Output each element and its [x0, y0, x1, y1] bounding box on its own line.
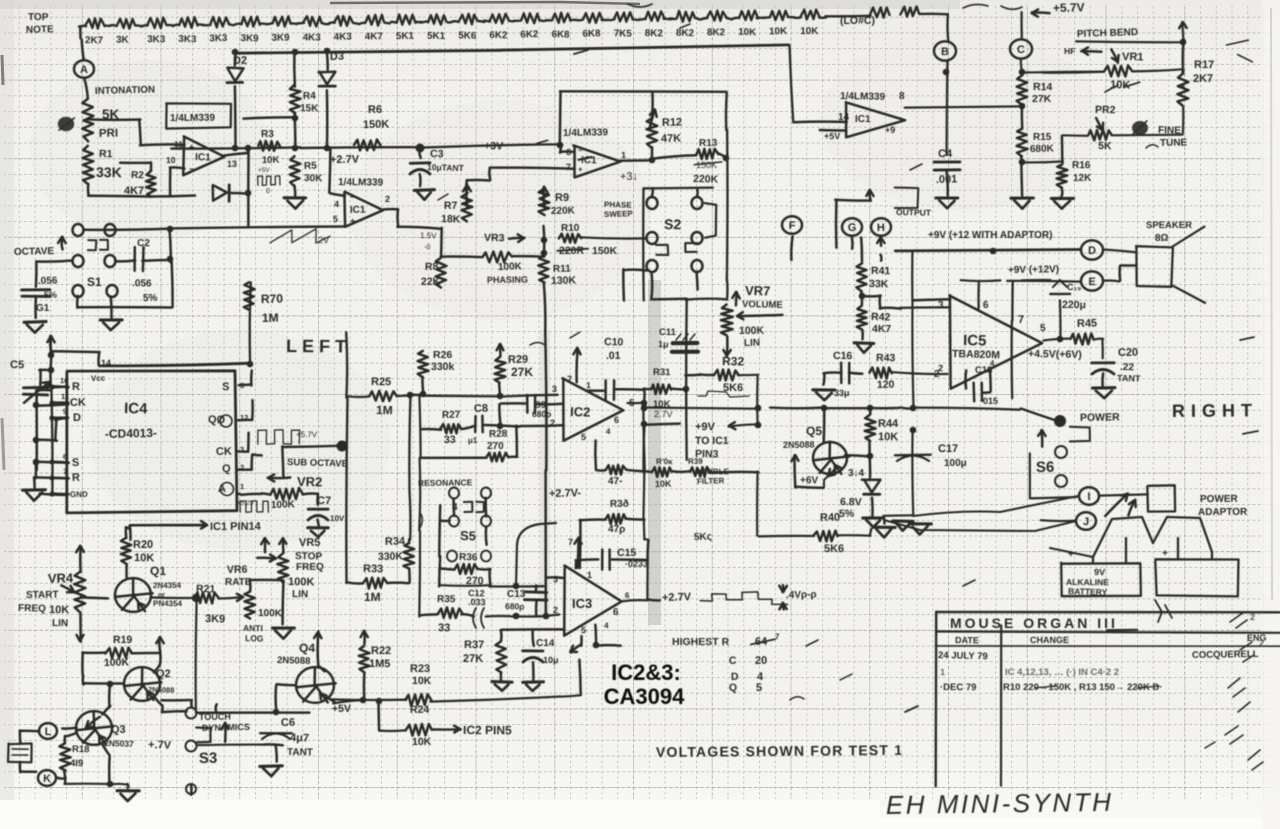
wire R11 bottom to S2 — [544, 283, 546, 331]
svg-text:+2.7V: +2.7V — [662, 591, 692, 604]
wire D to speaker — [1105, 250, 1137, 253]
wire x644 to C15 column — [643, 519, 646, 540]
svg-text:2N5088: 2N5088 — [783, 440, 815, 450]
svg-text:C20: C20 — [1118, 347, 1138, 359]
IC4 pin12 stub — [238, 419, 252, 422]
wire IC1a output — [224, 153, 248, 156]
wire bus_top y52 — [235, 50, 501, 53]
sawtooth sketch — [270, 229, 330, 243]
ground right of zener — [893, 519, 913, 523]
wire IC3 pin3 input — [546, 576, 565, 579]
svg-text:.4Vρ-ρ: .4Vρ-ρ — [786, 589, 817, 601]
resistor R14 27K — [1017, 75, 1028, 105]
svg-text:EH MINI-SYNTH: EH MINI-SYNTH — [886, 787, 1114, 820]
resistor chain R (value 6K8) — [583, 13, 602, 23]
svg-text:220μ: 220μ — [1062, 299, 1086, 311]
wire VR7 bottom arrow — [726, 337, 729, 357]
svg-text:R45: R45 — [1077, 317, 1098, 330]
paper blemishes — [648, 280, 661, 625]
svg-text:R31: R31 — [653, 367, 671, 378]
svg-text:K: K — [43, 773, 51, 785]
svg-text:R23: R23 — [410, 663, 430, 675]
ground C17 area — [873, 526, 895, 529]
wire top-left chain lead — [79, 27, 82, 38]
svg-text:10: 10 — [166, 155, 176, 165]
resistor R5 30K — [290, 156, 301, 186]
wire R14 to R15 — [1021, 104, 1024, 128]
svg-text:.056: .056 — [132, 278, 152, 290]
svg-text:R27: R27 — [442, 410, 461, 421]
svg-text:TANT: TANT — [1117, 373, 1141, 384]
wire IC1b output — [384, 208, 398, 211]
label +6V arrow — [793, 455, 796, 487]
svg-text:-CD4013-: -CD4013- — [105, 426, 157, 441]
svg-text:30K: 30K — [304, 173, 323, 184]
svg-text:3K9: 3K9 — [272, 33, 291, 44]
svg-text:13: 13 — [227, 159, 237, 169]
resistor R70 1M — [250, 282, 251, 364]
wire R13 to main vertical — [718, 153, 726, 157]
wire bottom ground rail — [64, 783, 110, 786]
IC4 pin1 wire to VR2 — [238, 493, 241, 496]
resistor chain R (value 5K1) — [397, 15, 416, 25]
svg-text:FINE: FINE — [1158, 125, 1181, 137]
wire plate bottom — [19, 762, 22, 772]
svg-text:10K: 10K — [878, 431, 898, 443]
svg-text:LIN: LIN — [52, 618, 68, 629]
wire S1 box — [84, 229, 171, 230]
stray marks upper middle — [574, 50, 588, 54]
wire Q1 emitter row y598 — [150, 596, 195, 599]
vertical bus x644 — [643, 404, 644, 470]
wire bus1 y148 — [171, 147, 300, 148]
node K terminal — [38, 770, 56, 786]
wire F down — [791, 237, 792, 260]
wire bus1 to IC1c — [418, 144, 560, 147]
svg-text:0: 0 — [266, 188, 270, 195]
IC4 left pin stub wires — [52, 386, 68, 387]
switch S5 terminals — [449, 488, 459, 499]
svg-text:IC2&3:: IC2&3: — [611, 660, 681, 685]
wire H down to R41 — [880, 255, 881, 261]
svg-text:Vcc: Vcc — [91, 374, 106, 383]
svg-text:7: 7 — [566, 162, 571, 172]
svg-text:6: 6 — [63, 452, 67, 461]
svg-text:R11: R11 — [553, 264, 572, 275]
wire Q4 collector arrow — [318, 666, 324, 672]
svg-text:H: H — [877, 222, 885, 234]
svg-text:G: G — [848, 222, 857, 234]
wire IC5 pin7 feed vertical — [1011, 283, 1014, 321]
svg-text:A: A — [80, 64, 88, 76]
wire Q2 collector — [154, 665, 160, 672]
svg-text:R40: R40 — [820, 512, 840, 524]
svg-text:1: 1 — [940, 667, 945, 677]
ground below VR5 — [273, 627, 295, 630]
wire R36 loop — [439, 568, 454, 569]
wire IC5 pin6 feed vertical — [977, 282, 980, 309]
resistor chain R (value 4K7) — [366, 15, 384, 26]
wire B vertical — [946, 14, 949, 41]
svg-text:VR2: VR2 — [297, 474, 322, 489]
resistor R3 10K — [258, 141, 280, 151]
svg-text:B: B — [941, 46, 949, 58]
wire +9V bus to D — [895, 250, 1079, 251]
junction D1 node — [245, 190, 252, 197]
svg-text:S3: S3 — [199, 750, 218, 767]
svg-text:100K: 100K — [498, 261, 523, 273]
svg-text:R42: R42 — [871, 311, 891, 324]
svg-text:VOLTAGES SHOWN FOR TEST 1: VOLTAGES SHOWN FOR TEST 1 — [656, 742, 903, 760]
wire R22 bottom — [363, 673, 366, 700]
svg-text:1.5V: 1.5V — [420, 231, 437, 240]
svg-text:R22: R22 — [371, 645, 391, 657]
svg-text:R13: R13 — [699, 138, 718, 149]
svg-text:+: + — [578, 165, 583, 174]
svg-text:R5: R5 — [304, 161, 318, 172]
wire R24 branch — [377, 701, 380, 730]
svg-text:R32: R32 — [722, 354, 745, 369]
svg-text:5: 5 — [1040, 323, 1046, 334]
box around IC1c R12 top line — [560, 90, 727, 93]
svg-text:IC5: IC5 — [963, 332, 987, 350]
wire IC1b out to R7/R8 column — [397, 227, 440, 229]
svg-text:+5.2V: +5.2V — [237, 500, 255, 507]
node G terminal — [842, 218, 862, 236]
svg-text:(LO#C): (LO#C) — [840, 15, 875, 27]
svg-text:+: + — [350, 216, 355, 226]
svg-text:4K7: 4K7 — [365, 31, 384, 42]
svg-text:R3ð: R3ð — [610, 498, 629, 510]
svg-text:100K: 100K — [288, 576, 315, 588]
wire R21 to VR6 — [218, 597, 242, 599]
svg-text:R35: R35 — [437, 594, 456, 605]
vertical bus x686 — [685, 299, 688, 460]
wire G H to +9 bus — [835, 200, 838, 248]
title block frame — [936, 611, 1279, 614]
IC4 pin14 top wire — [51, 350, 100, 353]
node C terminal — [1010, 39, 1032, 58]
screw adjust PR2 — [1132, 121, 1148, 135]
resistor chain R (value 3K3) — [147, 18, 166, 29]
wire jack arrows — [1105, 493, 1128, 516]
svg-text:C17: C17 — [938, 443, 958, 455]
resistor R1 33K — [83, 146, 94, 184]
wire R18 ends — [63, 736, 66, 742]
svg-text:9V: 9V — [1094, 567, 1105, 577]
wire Q4 emitter — [327, 697, 335, 702]
svg-text:C4: C4 — [938, 148, 953, 160]
wire R32 left — [700, 373, 714, 376]
svg-text:2N5088: 2N5088 — [148, 685, 174, 695]
svg-text:20: 20 — [755, 655, 767, 667]
svg-text:R26: R26 — [433, 349, 452, 361]
svg-text:+5.7V: +5.7V — [296, 430, 318, 439]
ground below R42 — [861, 330, 864, 339]
resistor R9 220K — [544, 187, 545, 209]
svg-text:10K: 10K — [262, 155, 280, 166]
svg-text:Q2: Q2 — [156, 668, 171, 680]
svg-text:1/4LM339: 1/4LM339 — [338, 177, 384, 189]
wire IC1c output to R12/R13 — [619, 159, 652, 162]
svg-text:5K1: 5K1 — [396, 31, 415, 42]
wire +9 bus down right side — [911, 251, 913, 301]
tick right edge — [1243, 431, 1258, 434]
svg-text:10K: 10K — [412, 675, 432, 687]
wire R15 bottom — [1020, 156, 1023, 195]
svg-text:-0: -0 — [424, 244, 431, 251]
vertical bus x347 — [345, 332, 348, 397]
node J terminal — [1076, 512, 1096, 530]
ground left of C16 row — [824, 371, 842, 374]
wire R17 bottom to PR2 row — [1182, 107, 1185, 133]
svg-text:C₁₉: C₁₉ — [1067, 282, 1081, 292]
svg-text:IC2: IC2 — [570, 404, 591, 420]
resistor R16 12K — [1061, 161, 1064, 165]
wire R33 row — [348, 582, 363, 583]
svg-text:3K: 3K — [116, 35, 129, 46]
svg-text:18K: 18K — [441, 213, 461, 226]
svg-text:680ρ: 680ρ — [505, 601, 525, 611]
svg-text:+5V: +5V — [332, 703, 351, 715]
resistor R4 15K — [293, 52, 296, 87]
wire C19 up to E — [1058, 279, 1061, 282]
wire R31 row — [644, 387, 650, 390]
transistor Q2 2N5088 — [124, 667, 160, 701]
wire power node — [901, 408, 913, 409]
svg-text:2: 2 — [1250, 612, 1255, 622]
svg-text:Q5: Q5 — [806, 424, 822, 438]
svg-text:12K: 12K — [1073, 173, 1092, 184]
svg-text:5K1: 5K1 — [427, 31, 446, 42]
svg-text:R4: R4 — [303, 91, 317, 102]
svg-text:R41: R41 — [871, 265, 891, 277]
node L terminal — [39, 723, 57, 739]
svg-text:3: 3 — [553, 574, 558, 584]
battery second box — [1155, 559, 1238, 596]
wire S2 bottom drops — [650, 272, 653, 299]
wire R44 — [868, 409, 871, 414]
svg-text:G1: G1 — [36, 303, 50, 314]
svg-text:3K9: 3K9 — [240, 33, 259, 44]
wire output up to C19 — [1059, 300, 1062, 339]
svg-text:F: F — [789, 220, 796, 232]
junction +5V node — [360, 697, 367, 704]
resistor R20 10K — [121, 538, 131, 564]
svg-text:.22: .22 — [1120, 362, 1135, 373]
wire Q4 base — [277, 684, 296, 685]
svg-text:R14: R14 — [1033, 81, 1053, 93]
label S3 bottom circle wire — [190, 784, 193, 794]
svg-text:L: L — [45, 726, 52, 738]
svg-text:R20: R20 — [133, 539, 153, 551]
resistor R17 body — [1178, 74, 1189, 106]
arrow IC2 PIN5 — [432, 728, 461, 730]
svg-text:5%: 5% — [44, 290, 57, 300]
svg-text:R6: R6 — [368, 104, 382, 116]
wire x420 vertical left — [419, 396, 420, 458]
stray mark left of title block — [905, 706, 918, 712]
svg-text:TUNE: TUNE — [1160, 137, 1188, 149]
wire y616 to IC3 — [516, 615, 546, 618]
wire Q1 base-collector vertical — [196, 598, 197, 712]
resistor chain R (value 10K) — [739, 11, 758, 21]
node D terminal — [1081, 240, 1103, 259]
wire Q3 collector to Q2 base node — [102, 706, 110, 714]
vertical bus x410 down — [409, 395, 410, 492]
svg-text:R2: R2 — [131, 170, 144, 181]
svg-text:C8: C8 — [474, 403, 488, 415]
svg-text:10K: 10K — [655, 479, 672, 489]
svg-text:7: 7 — [63, 467, 67, 476]
resistor chain R (value 3K) — [117, 19, 135, 29]
svg-text:220K: 220K — [551, 205, 576, 217]
svg-text:E: E — [1088, 276, 1096, 288]
svg-text:100K: 100K — [258, 608, 283, 619]
wire Q1 column down — [195, 596, 198, 599]
svg-text:R3: R3 — [261, 129, 274, 140]
svg-text:R16: R16 — [1072, 160, 1091, 171]
svg-text:4: 4 — [334, 199, 339, 209]
wire IC4 left bus vertical — [51, 388, 52, 494]
wire bus y396 to IC2 — [421, 395, 501, 398]
resistor chain R (value 3K3) — [179, 17, 197, 28]
wire C5 to IC4 pins — [35, 395, 38, 470]
node H terminal — [871, 218, 891, 236]
svg-text:33μ: 33μ — [834, 388, 850, 398]
resistor chain R (value 6K8) — [552, 13, 570, 23]
svg-text:10: 10 — [60, 376, 69, 385]
svg-text:C6: C6 — [281, 717, 295, 729]
junction R14 top — [1019, 69, 1026, 76]
svg-text:+9V (+12 WITH ADAPTOR): +9V (+12 WITH ADAPTOR) — [928, 230, 1052, 241]
svg-text:330K: 330K — [378, 550, 404, 563]
svg-text:4K3: 4K3 — [334, 32, 353, 43]
junction bus1 x248 — [245, 145, 252, 152]
svg-text:27K: 27K — [463, 653, 483, 665]
wire VR1 ends — [1043, 71, 1104, 74]
wire R32 right corner down — [738, 374, 758, 377]
svg-text:5: 5 — [333, 214, 338, 224]
resistor R17 2K7 — [1181, 70, 1184, 73]
svg-text:I: I — [1087, 491, 1090, 503]
svg-text:C15: C15 — [617, 547, 636, 559]
svg-text:3: 3 — [552, 384, 557, 394]
wire R34 top — [408, 539, 411, 543]
power adaptor jack — [1147, 485, 1175, 511]
wire R27 C8 row — [420, 428, 441, 431]
switch S5 brackets — [464, 502, 473, 512]
wire Q1 collector up — [126, 527, 130, 529]
resistor R39 filter — [690, 467, 710, 477]
IC IC4 CD4013 box — [67, 371, 237, 513]
svg-text:1M: 1M — [262, 311, 279, 325]
svg-text:+5V: +5V — [258, 167, 270, 174]
svg-text:4: 4 — [606, 427, 611, 436]
svg-text:MOUSE ORGAN III: MOUSE ORGAN III — [950, 615, 1118, 631]
svg-text:VR5: VR5 — [299, 537, 321, 549]
wire to IC1 PIN14 arrow — [129, 526, 132, 540]
svg-text:R: R — [72, 472, 80, 484]
svg-text:+3↓: +3↓ — [620, 171, 638, 183]
wire R7 top — [465, 181, 468, 191]
resistor chain R (value 4K3) — [303, 16, 322, 26]
resistor chain R (value 3K9) — [241, 17, 259, 27]
svg-text:DATE: DATE — [955, 635, 979, 645]
wire IC1a inputs — [140, 143, 185, 146]
svg-text:R17: R17 — [1194, 59, 1214, 71]
svg-text:3K3: 3K3 — [209, 33, 228, 45]
IC4 pin2 stub — [237, 468, 252, 471]
wire S3 top to Q2 rail — [190, 700, 193, 706]
svg-text:+9V: +9V — [695, 421, 716, 433]
svg-text:33K: 33K — [96, 164, 122, 180]
svg-text:Q: Q — [729, 682, 737, 694]
wire Q2 emitter to S3 — [162, 710, 187, 713]
resistor R12 47K — [649, 109, 654, 128]
wire IC4 left bus — [49, 340, 52, 352]
wire IC5 pin3 input — [900, 306, 950, 309]
wire C16 to R43 — [849, 373, 862, 374]
svg-text:33: 33 — [444, 434, 456, 446]
square wave sketch near R3 — [258, 176, 280, 185]
svg-text:R37: R37 — [464, 639, 484, 651]
node F terminal — [782, 216, 802, 234]
wire Q5 emitter — [824, 468, 836, 487]
svg-text:+2.7V-: +2.7V- — [549, 487, 582, 500]
resistor R8 22K — [436, 258, 447, 288]
switch S2 terminal stubs — [652, 188, 653, 196]
wire stub left of R4 — [244, 117, 296, 118]
svg-text:C5: C5 — [10, 359, 24, 371]
svg-text:Q1: Q1 — [150, 564, 166, 578]
wire IC3 output — [623, 600, 649, 601]
svg-text:IC1: IC1 — [350, 205, 366, 216]
svg-text:5K6: 5K6 — [824, 543, 844, 555]
resistor R29 27K — [499, 345, 500, 357]
wire IC1d pin+ input — [820, 129, 846, 132]
wire sub octave loop — [282, 446, 283, 476]
wire Q5 collector — [822, 409, 825, 443]
svg-text:33K: 33K — [869, 278, 889, 290]
svg-text:SUB OCTAVE: SUB OCTAVE — [287, 457, 348, 470]
svg-text:1: 1 — [587, 570, 592, 580]
op-amp IC5 TBA820M — [950, 295, 1043, 389]
svg-text:+5V: +5V — [824, 131, 840, 141]
S2 box top line — [643, 186, 713, 189]
svg-text:R9: R9 — [555, 192, 569, 204]
corner marks top right — [1227, 40, 1249, 45]
svg-text:100K: 100K — [271, 499, 296, 511]
svg-text:R25: R25 — [371, 376, 391, 388]
svg-text:6K8: 6K8 — [551, 29, 570, 41]
svg-text:CA3094: CA3094 — [604, 684, 685, 709]
svg-text:PITCH BEND: PITCH BEND — [1077, 27, 1138, 40]
svg-text:IC3: IC3 — [572, 596, 592, 611]
svg-text:10K: 10K — [800, 26, 818, 37]
svg-text:10μ: 10μ — [543, 655, 559, 665]
resistor R41 33K — [860, 238, 863, 262]
junction power dot — [1054, 415, 1066, 427]
svg-text:·DEC 79: ·DEC 79 — [940, 682, 976, 693]
screw adjust symbol — [59, 118, 74, 131]
resistor chain R (value 5K1) — [428, 14, 446, 24]
svg-text:8: 8 — [899, 91, 905, 102]
wire S5 wiring — [452, 499, 455, 516]
svg-text:47-: 47- — [608, 476, 622, 487]
stray marks right — [1125, 82, 1140, 87]
battery 9V box — [1061, 563, 1141, 597]
